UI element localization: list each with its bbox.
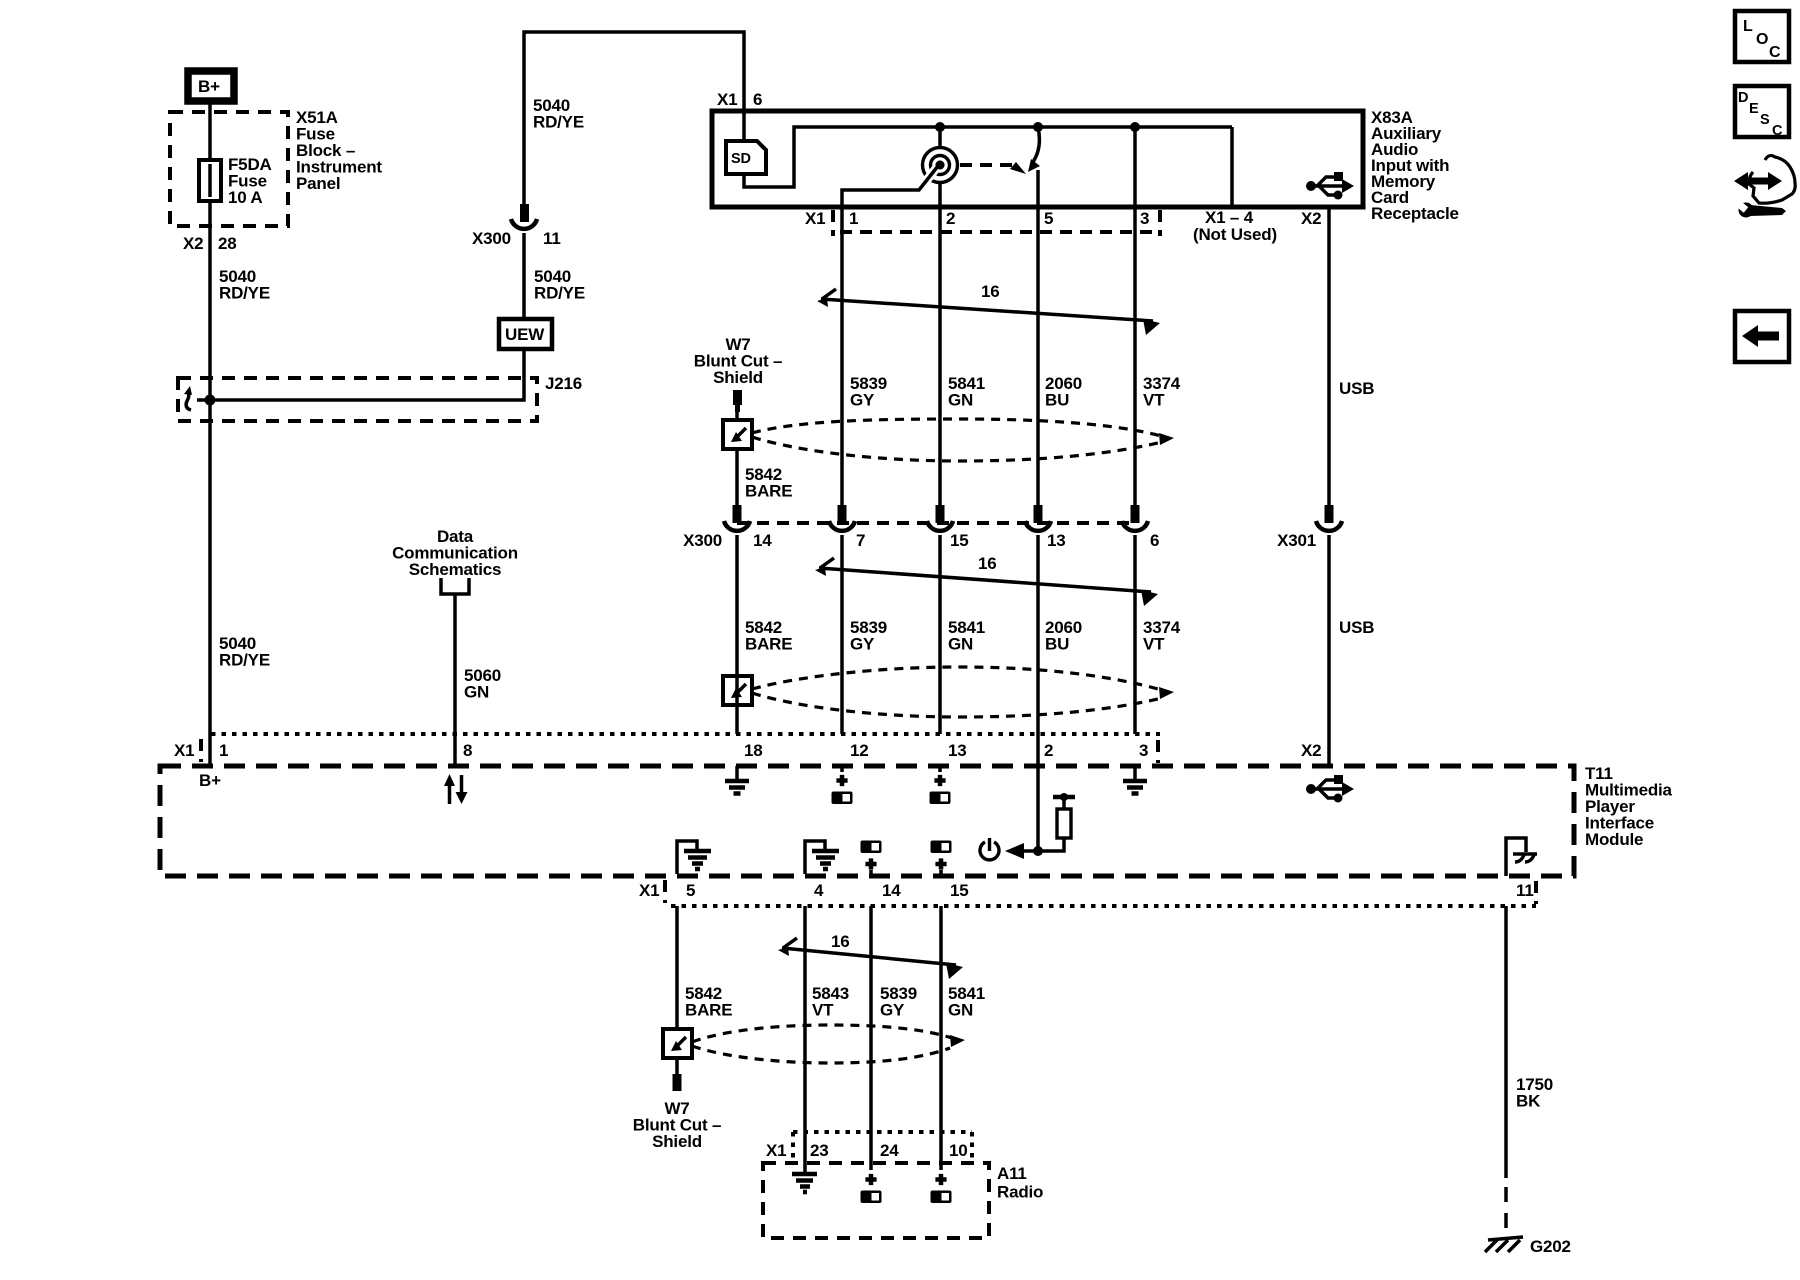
wire 5839 GY upper	[840, 232, 844, 505]
wire pin2 stub	[938, 207, 942, 232]
svg-text:C: C	[1772, 123, 1783, 139]
svg-text:X1: X1	[717, 90, 737, 109]
svg-text:X300: X300	[683, 531, 722, 550]
svg-text:X1: X1	[805, 209, 825, 228]
junction at J216	[205, 395, 216, 406]
svg-text:Radio: Radio	[997, 1183, 1043, 1202]
icon LOC button	[1735, 11, 1789, 62]
svg-text:X2: X2	[183, 234, 203, 253]
off-page splice hook	[186, 392, 191, 410]
connector X1 dashed line	[840, 230, 1157, 234]
battery positive symbol (pin 13)	[930, 766, 951, 804]
connector X300 pin 6	[1122, 505, 1148, 531]
svg-text:16: 16	[831, 932, 850, 951]
shield ellipse (middle)	[752, 667, 1168, 692]
connector X300 pin 14	[724, 505, 750, 531]
svg-text:11: 11	[1516, 881, 1534, 900]
twisted pair symbol 16 (upper)	[817, 289, 1160, 335]
svg-text:Schematics: Schematics	[409, 560, 502, 579]
internal wire unused pin 4 stub	[1230, 127, 1234, 207]
device UEW box	[499, 319, 552, 349]
svg-text:12: 12	[850, 741, 869, 760]
fuse F5DA 10A	[199, 160, 221, 201]
svg-text:G202: G202	[1530, 1237, 1571, 1256]
jack tip contact to pin 1	[919, 166, 938, 190]
shield ellipse (upper)	[752, 419, 1168, 438]
module A11 radio dashed box	[763, 1163, 989, 1238]
svg-text:B+: B+	[198, 77, 220, 96]
ground symbol (A11 pin 23)	[792, 1174, 817, 1192]
ground symbol (pin 3)	[1123, 766, 1147, 794]
svg-text:14: 14	[753, 531, 772, 550]
svg-text:GY: GY	[850, 635, 875, 654]
ground symbol (pin 18)	[725, 766, 749, 794]
battery positive symbol (pin 14)	[861, 841, 882, 875]
connector X300 pin 11 (inline, top)	[511, 204, 537, 229]
connector row X1 (T11 bottom)	[671, 904, 1536, 908]
module T11 dashed box	[160, 766, 1574, 876]
icon back button	[1735, 311, 1789, 362]
pull-up resistor	[1038, 793, 1075, 851]
audio jack (concentric rings)	[923, 127, 958, 207]
svg-text:BARE: BARE	[745, 635, 792, 654]
USB icon (T11 X2)	[1306, 775, 1354, 803]
svg-text:C: C	[1769, 44, 1781, 61]
svg-text:Shield: Shield	[713, 368, 763, 387]
svg-text:13: 13	[948, 741, 967, 760]
junction dots on internal bus	[935, 122, 945, 132]
svg-text:GN: GN	[948, 1001, 973, 1020]
blunt cut terminal (bottom)	[673, 1074, 682, 1091]
wire 3374 VT lower run	[1133, 535, 1137, 734]
fuse block X51A dashed box	[170, 112, 288, 226]
svg-text:UEW: UEW	[505, 325, 545, 344]
svg-text:2: 2	[946, 209, 955, 228]
svg-text:3: 3	[1139, 741, 1148, 760]
USB receptacle icon (X83A)	[1306, 172, 1354, 200]
svg-text:GN: GN	[948, 391, 973, 410]
svg-text:L: L	[1743, 18, 1753, 35]
svg-text:23: 23	[810, 1141, 829, 1160]
wire 5842 BARE (shield drain to X300)	[735, 449, 739, 505]
wire USB X2 to X301	[1327, 207, 1331, 505]
wire 3374 VT upper	[1133, 232, 1137, 505]
power node B+	[188, 71, 234, 101]
switch arm (pin 5)	[1033, 127, 1039, 162]
svg-text:18: 18	[744, 741, 763, 760]
battery positive symbol (A11 pin 24)	[861, 1174, 882, 1203]
power button symbol	[980, 838, 999, 860]
svg-text:D: D	[1738, 90, 1748, 106]
svg-text:13: 13	[1047, 531, 1066, 550]
svg-text:14: 14	[882, 881, 901, 900]
svg-text:Module: Module	[1585, 830, 1643, 849]
wire pin3 stub	[1133, 207, 1137, 232]
svg-text:BU: BU	[1045, 635, 1069, 654]
wire 5040 RD/YE (fuse output, left vertical run)	[208, 201, 212, 766]
shield ellipse (bottom)	[692, 1025, 958, 1042]
svg-text:O: O	[1756, 31, 1768, 48]
internal wire SD to bus	[744, 127, 1232, 187]
svg-text:6: 6	[1150, 531, 1159, 550]
wire J216 horizontal to UEW branch	[197, 348, 524, 400]
svg-text:X1: X1	[639, 881, 659, 900]
svg-text:X1: X1	[174, 741, 194, 760]
connector X300 pin 7	[829, 505, 855, 531]
svg-text:28: 28	[218, 234, 237, 253]
connector X300 pin 15	[927, 505, 953, 531]
svg-text:15: 15	[950, 881, 969, 900]
svg-text:RD/YE: RD/YE	[533, 113, 584, 132]
junction dot pin2/resistor	[1033, 846, 1043, 856]
hanging ground (pin 5)	[677, 841, 711, 874]
svg-text:GY: GY	[850, 391, 875, 410]
svg-text:J216: J216	[545, 374, 582, 393]
svg-text:GN: GN	[948, 635, 973, 654]
svg-text:BARE: BARE	[745, 482, 792, 501]
svg-text:VT: VT	[812, 1001, 834, 1020]
wire pin 2 into module	[1036, 734, 1040, 851]
svg-text:4: 4	[814, 881, 824, 900]
serial data arrows (pin 8)	[444, 774, 468, 804]
shield termination box (bottom)	[663, 1029, 692, 1058]
svg-text:E: E	[1749, 101, 1759, 117]
wire 5842 BARE lower run	[735, 535, 739, 734]
svg-text:15: 15	[950, 531, 969, 550]
svg-text:X301: X301	[1277, 531, 1316, 550]
wire 1750 BK	[1504, 906, 1508, 1178]
wire 2060 BU lower run	[1036, 535, 1040, 734]
blunt cut terminal (upper)	[733, 390, 742, 405]
wire 5841 GN	[939, 906, 943, 1170]
svg-text:B+: B+	[199, 771, 221, 790]
svg-text:8: 8	[463, 741, 472, 760]
wire shield to blunt cut	[675, 1058, 679, 1074]
wire pin1 stub	[840, 207, 844, 232]
svg-text:16: 16	[981, 282, 1000, 301]
twisted pair symbol 16 (bottom)	[778, 938, 963, 979]
battery positive symbol (pin 15)	[931, 841, 952, 875]
svg-text:RD/YE: RD/YE	[534, 284, 585, 303]
connector X301 (USB)	[1316, 505, 1342, 531]
icon DESC button	[1735, 86, 1789, 139]
svg-text:X2: X2	[1301, 209, 1321, 228]
svg-text:6: 6	[753, 90, 762, 109]
wire UEW up to X300 connector	[522, 233, 526, 319]
svg-text:X300: X300	[472, 229, 511, 248]
svg-text:1: 1	[849, 209, 858, 228]
svg-text:BK: BK	[1516, 1092, 1541, 1111]
wire 5843 VT	[803, 906, 807, 1172]
wire 5839 GY lower run	[840, 535, 844, 734]
wire pin6 into SD card	[742, 111, 746, 143]
connector dashed line	[737, 521, 1135, 525]
connector X300 pin 13	[1025, 505, 1051, 531]
svg-text:24: 24	[880, 1141, 899, 1160]
svg-text:VT: VT	[1143, 391, 1165, 410]
svg-text:GY: GY	[880, 1001, 905, 1020]
hanging ground (pin 4)	[805, 841, 839, 874]
connector row X1 (T11 top) dotted line	[211, 732, 1160, 736]
svg-text:1: 1	[219, 741, 228, 760]
wire B+ to fuse	[208, 101, 212, 160]
connector row X1 (A11)	[793, 1130, 972, 1134]
svg-text:7: 7	[856, 531, 865, 550]
icon wrench/arrow (component locator)	[1734, 156, 1795, 218]
shield termination box (upper)	[723, 420, 752, 449]
svg-text:2: 2	[1044, 741, 1053, 760]
svg-text:10 A: 10 A	[228, 188, 262, 207]
wire 5841 GN upper	[938, 232, 942, 505]
svg-text:RD/YE: RD/YE	[219, 284, 270, 303]
svg-text:5: 5	[686, 881, 695, 900]
svg-text:Receptacle: Receptacle	[1371, 204, 1459, 223]
battery positive symbol (pin 12)	[832, 766, 853, 804]
wire USB X301 to T11	[1327, 535, 1331, 766]
wire pin5 stub	[1036, 207, 1040, 232]
svg-text:VT: VT	[1143, 635, 1165, 654]
wire shield drain to box	[735, 412, 739, 420]
chassis ground (pin 11)	[1506, 838, 1537, 876]
wire 5839 GY	[869, 906, 873, 1170]
shield termination box (middle)	[723, 676, 752, 705]
svg-text:BARE: BARE	[685, 1001, 732, 1020]
wire 5842 BARE (bottom shield)	[675, 906, 679, 1029]
svg-text:X2: X2	[1301, 741, 1321, 760]
svg-text:3: 3	[1140, 209, 1149, 228]
svg-text:Panel: Panel	[296, 174, 340, 193]
wire 2060 BU upper	[1036, 232, 1040, 505]
svg-text:S: S	[1760, 112, 1770, 128]
svg-text:X1: X1	[766, 1141, 786, 1160]
svg-text:5: 5	[1044, 209, 1053, 228]
svg-text:Shield: Shield	[652, 1132, 702, 1151]
wire 5060 GN from data link	[441, 578, 469, 766]
svg-text:SD: SD	[731, 151, 751, 167]
SD card icon	[726, 141, 766, 174]
svg-text:16: 16	[978, 554, 997, 573]
svg-text:A11: A11	[997, 1164, 1027, 1183]
svg-text:USB: USB	[1339, 379, 1374, 398]
wire pin 3 shield through box	[1133, 127, 1137, 207]
splice pack J216 dashed box	[178, 378, 537, 421]
battery positive symbol (A11 pin 10)	[931, 1174, 952, 1203]
twisted pair symbol 16 (middle)	[815, 558, 1158, 606]
power control: arrow into power symbol	[1024, 849, 1038, 853]
svg-text:BU: BU	[1045, 391, 1069, 410]
svg-text:10: 10	[949, 1141, 968, 1160]
wire X300 up and over to X83A pin 6	[524, 32, 744, 204]
mechanical link (dashed) jack to switch	[960, 163, 1014, 167]
svg-text:11: 11	[543, 229, 561, 248]
ground G202	[1485, 1237, 1523, 1252]
wire 5841 GN lower run	[938, 535, 942, 734]
module X83A box	[712, 111, 1363, 207]
svg-text:RD/YE: RD/YE	[219, 651, 270, 670]
svg-text:GN: GN	[464, 683, 489, 702]
svg-text:(Not Used): (Not Used)	[1193, 225, 1277, 244]
svg-text:USB: USB	[1339, 618, 1374, 637]
